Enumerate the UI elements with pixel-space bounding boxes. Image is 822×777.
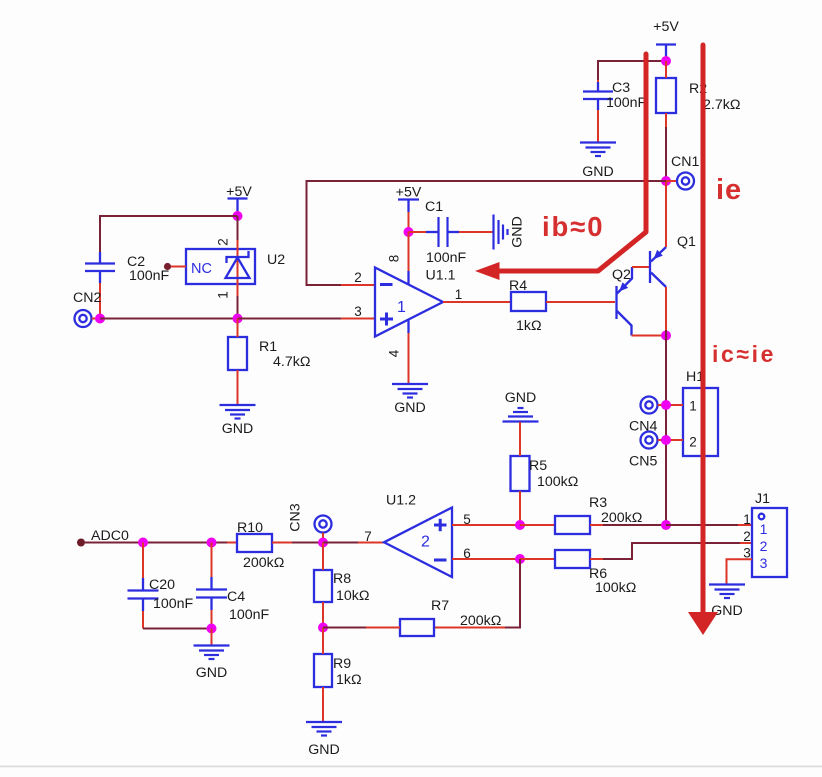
wire H1 pin 1 stub: [666, 404, 683, 406]
junction (666,525): [661, 520, 671, 530]
resistor R2: [656, 61, 676, 127]
svg-text:R3: R3: [589, 495, 607, 511]
svg-text:200kΩ: 200kΩ: [243, 555, 284, 571]
svg-text:2: 2: [216, 238, 231, 246]
ground GND under U1.1 pin 4: [392, 384, 428, 416]
svg-text:R1: R1: [259, 339, 277, 355]
wire collector node down to H1 and J1: [665, 330, 667, 525]
wire CN5 stub: [658, 439, 666, 441]
junction (666,440): [661, 435, 671, 445]
svg-text:J1: J1: [755, 491, 770, 507]
svg-text:R9: R9: [333, 656, 351, 672]
junction (143,542.5): [138, 538, 148, 548]
wire CN2 node to U2 node: [100, 318, 238, 320]
svg-text:CN5: CN5: [629, 454, 657, 470]
resistor R9: [314, 628, 332, 722]
wire feedback net to U1.1 pin 2: [307, 181, 667, 285]
connector target CN5: [641, 432, 658, 449]
annotation arrow ie (vertical): [688, 45, 718, 635]
svg-text:100nF: 100nF: [229, 607, 270, 623]
svg-text:Q1: Q1: [677, 234, 696, 250]
svg-text:U1.1: U1.1: [426, 268, 456, 284]
svg-text:+5V: +5V: [653, 19, 679, 35]
svg-text:GND: GND: [510, 216, 526, 248]
wire +5V stub to junction: [408, 212, 410, 232]
ground GND under C3: [580, 143, 616, 181]
ground GND above R5 (inverted): [503, 390, 539, 422]
ground GND under J1 pin 3: [709, 585, 745, 620]
U2 pin 1 wire: [237, 284, 239, 319]
ground GND rotated right of C1: [494, 215, 526, 250]
resistor R5: [511, 422, 530, 525]
svg-text:ic≈ie: ic≈ie: [712, 341, 776, 367]
wire C20 bottom to C4 bottom: [143, 628, 212, 630]
wire C3 top pin: [597, 80, 599, 92]
svg-text:1: 1: [455, 287, 463, 302]
svg-text:200kΩ: 200kΩ: [601, 510, 642, 526]
U2 pin 2 wire: [237, 216, 239, 249]
svg-text:2: 2: [354, 270, 362, 285]
wire H1 pin 2 stub: [666, 439, 683, 441]
svg-text:GND: GND: [222, 421, 254, 437]
svg-text:C3: C3: [612, 80, 630, 96]
wire NC pin stub: [171, 266, 186, 268]
power +5V top right: [653, 19, 679, 56]
wire R10 left stub: [227, 542, 237, 544]
svg-text:4.7kΩ: 4.7kΩ: [273, 354, 310, 370]
svg-text:1: 1: [397, 299, 406, 316]
wire ADC0 net: [85, 542, 227, 544]
svg-text:100kΩ: 100kΩ: [595, 580, 636, 596]
svg-text:R7: R7: [431, 598, 449, 614]
wire U1.2 pin 6: [452, 558, 520, 560]
resistor R3: [555, 516, 590, 534]
junction (520,559): [515, 554, 525, 564]
connector H1: [683, 388, 718, 456]
wire U1.2 pin 5: [452, 524, 520, 526]
svg-text:NC: NC: [191, 261, 212, 277]
resistor R10: [237, 534, 272, 552]
svg-text:GND: GND: [505, 390, 537, 406]
transistor Q2: [617, 267, 633, 336]
svg-text:GND: GND: [196, 665, 228, 681]
capacitor C2: [85, 252, 115, 283]
svg-text:7: 7: [364, 529, 372, 544]
junction (323,627.5): [318, 623, 328, 633]
port ADC0: [77, 539, 85, 547]
wire junction to CN1: [666, 180, 677, 182]
svg-text:100kΩ: 100kΩ: [537, 474, 578, 490]
wire Q1 collector down: [665, 287, 667, 330]
junction (237.5,216): [233, 211, 243, 221]
junction (520,525): [515, 520, 525, 530]
junction (666,405): [661, 400, 671, 410]
svg-text:2: 2: [760, 538, 768, 554]
svg-text:100nF: 100nF: [153, 596, 194, 612]
junction (211.5,542.5): [207, 538, 217, 548]
connector target CN1: [677, 173, 694, 190]
wire CN2 to junction: [92, 318, 100, 320]
svg-text:ib≈0: ib≈0: [542, 211, 604, 242]
wire U1.1 output to R4: [443, 301, 511, 303]
svg-text:C4: C4: [227, 589, 245, 605]
junction (323,542.5): [318, 538, 328, 548]
wire C2 bottom to CN2 node: [99, 283, 101, 319]
wire pin6 node down to R7: [505, 559, 520, 628]
wire C3 to GND: [597, 110, 599, 143]
junction (211.5,628.5): [207, 624, 217, 634]
ground GND under R9: [306, 722, 342, 758]
wire R6 to J1 pin 2: [590, 543, 752, 559]
svg-text:GND: GND: [582, 164, 614, 180]
svg-text:ie: ie: [716, 174, 742, 206]
svg-text:GND: GND: [394, 400, 426, 416]
connector target CN3: [315, 516, 332, 533]
component U2: [186, 249, 255, 284]
wire pin 3 stub: [341, 318, 375, 320]
wire R7 right stub: [434, 627, 505, 629]
svg-text:C1: C1: [425, 199, 443, 215]
svg-text:2: 2: [689, 435, 697, 450]
svg-text:U2: U2: [267, 252, 285, 268]
svg-text:3: 3: [743, 546, 751, 561]
wire R3 to J1 pin1 node: [590, 524, 666, 526]
svg-text:CN1: CN1: [671, 154, 699, 170]
svg-text:R4: R4: [509, 278, 527, 294]
connector target CN4: [641, 397, 658, 414]
capacitor C1: [426, 217, 459, 247]
wire junction left and down to C3: [598, 61, 666, 80]
wire junction to R3: [520, 524, 555, 526]
wire CN4 stub: [658, 404, 666, 406]
annotation arrow ib: [475, 54, 646, 280]
ground GND under R1: [220, 405, 256, 437]
connector target CN2: [75, 310, 92, 327]
wire R4 to Q2 base: [546, 301, 615, 303]
svg-text:4: 4: [387, 349, 402, 357]
op-amp U1.2: [384, 508, 452, 578]
wire J1 pin 3 to GND: [727, 559, 753, 584]
junction (408.5,232): [404, 227, 414, 237]
bottom frame line: [0, 766, 822, 768]
junction (666,61): [661, 56, 671, 66]
wire R2 to node ie: [665, 127, 667, 181]
op-amp U1.1: [375, 268, 443, 337]
svg-text:1: 1: [760, 521, 768, 537]
svg-text:2.7kΩ: 2.7kΩ: [703, 97, 740, 113]
svg-text:R5: R5: [529, 458, 547, 474]
svg-text:200kΩ: 200kΩ: [460, 613, 501, 629]
wire R8 node to R7 left: [323, 627, 400, 629]
resistor R8: [314, 543, 332, 628]
wire +5V stub: [237, 211, 239, 216]
ground GND under C4: [194, 646, 230, 682]
svg-text:1: 1: [216, 291, 231, 299]
svg-text:Q2: Q2: [612, 267, 631, 283]
svg-text:CN2: CN2: [73, 290, 101, 306]
power +5V above U2: [226, 184, 252, 211]
svg-text:1kΩ: 1kΩ: [516, 318, 542, 334]
wire CN3 stub: [322, 533, 324, 543]
svg-text:+5V: +5V: [396, 185, 422, 201]
U1.1 pin 8 wire: [408, 232, 410, 284]
svg-text:GND: GND: [308, 742, 340, 758]
wire junction left down to C2: [100, 216, 238, 252]
wire U2 node to U1.1 pin 3: [238, 318, 342, 320]
wire junction to R6: [520, 558, 555, 560]
resistor R1: [228, 319, 247, 405]
resistor R6: [555, 550, 590, 568]
wire Q2 collector to node: [632, 335, 667, 337]
svg-text:1: 1: [743, 512, 751, 527]
junction (100,318.5): [95, 314, 105, 324]
U1.1 pin 4 wire: [407, 320, 409, 384]
wire junction to C1: [409, 231, 427, 233]
svg-text:2: 2: [421, 534, 430, 551]
svg-text:CN3: CN3: [288, 503, 304, 531]
svg-text:R10: R10: [237, 520, 263, 536]
transistor Q1: [650, 247, 666, 287]
wire Q2 emitter to Q1 base: [632, 266, 649, 268]
capacitor C20: [128, 543, 159, 629]
svg-text:GND: GND: [711, 603, 743, 619]
svg-text:100nF: 100nF: [426, 250, 467, 266]
wire R10 right to CN3 node: [272, 542, 323, 544]
capacitor C4: [196, 543, 227, 629]
power +5V above U1.1: [396, 185, 422, 213]
svg-text:3: 3: [760, 555, 768, 571]
junction (666,181): [661, 176, 671, 186]
junction (666,335.5): [661, 331, 671, 341]
wire node to J1 pin 1: [666, 524, 752, 526]
wire Q1 emitter up to node ie: [665, 182, 667, 247]
resistor R7: [400, 619, 434, 636]
wire CN3 node to U1.2 pin 7: [323, 542, 384, 544]
wire +5V stub to junction: [665, 56, 667, 61]
svg-text:3: 3: [354, 304, 362, 319]
wire C1 to rotated GND: [459, 231, 494, 233]
resistor R4: [511, 292, 546, 311]
wire junction to GND: [211, 629, 213, 646]
svg-text:2: 2: [743, 529, 751, 544]
connector J1: [752, 508, 787, 577]
svg-text:10kΩ: 10kΩ: [336, 588, 369, 604]
svg-text:100nF: 100nF: [606, 95, 647, 111]
capacitor C3: [583, 82, 613, 110]
svg-text:C20: C20: [149, 577, 175, 593]
wire pin 2 stub: [341, 284, 375, 286]
junction (237.5,318.5): [233, 314, 243, 324]
svg-text:R8: R8: [333, 571, 351, 587]
svg-text:1: 1: [689, 399, 697, 414]
svg-text:1kΩ: 1kΩ: [336, 672, 362, 688]
svg-text:100nF: 100nF: [129, 268, 170, 284]
svg-text:U1.2: U1.2: [386, 493, 416, 509]
U2 NC pin dot: [164, 263, 171, 270]
svg-text:8: 8: [387, 255, 402, 263]
